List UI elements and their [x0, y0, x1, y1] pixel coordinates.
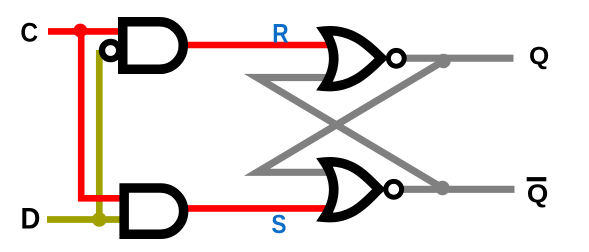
svg-text:D: D: [21, 203, 41, 236]
svg-text:Q: Q: [529, 43, 549, 70]
svg-text:C: C: [20, 19, 38, 48]
svg-text:Q: Q: [527, 179, 548, 208]
svg-text:S: S: [271, 210, 286, 239]
svg-text:R: R: [272, 18, 288, 48]
